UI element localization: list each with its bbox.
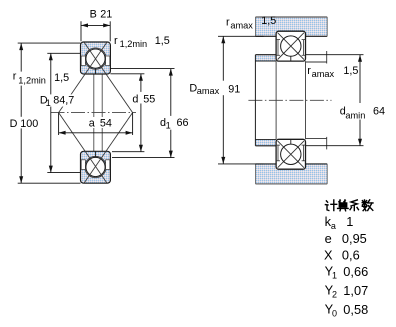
label r amax 1,5 (top) [226, 15, 276, 31]
svg-text:amax: amax [197, 86, 220, 96]
dimension d amin 64 [306, 55, 386, 146]
table rows [325, 214, 354, 231]
housing section top [256, 17, 328, 36]
shaft outline right of bearing, bottom [306, 137, 327, 150]
contact line lower-right [84, 113, 133, 183]
svg-text:1,5: 1,5 [343, 65, 358, 77]
svg-text:84,7: 84,7 [53, 94, 74, 106]
svg-text:1,5: 1,5 [261, 15, 276, 27]
svg-text:r: r [114, 35, 118, 47]
svg-text:1,5: 1,5 [54, 72, 69, 84]
contact line upper-left [59, 42, 107, 112]
svg-text:0,58: 0,58 [343, 302, 368, 317]
svg-text:1: 1 [166, 120, 171, 130]
svg-text:r: r [13, 71, 17, 83]
svg-text:1: 1 [46, 98, 51, 108]
svg-text:1: 1 [332, 270, 337, 280]
svg-text:0,6: 0,6 [342, 247, 360, 262]
shaft shoulder top [256, 55, 277, 61]
dimension d1 66 [110, 69, 190, 158]
contact line lower-left [59, 113, 107, 183]
svg-text:0,66: 0,66 [343, 264, 368, 279]
centerline (axis) left figure [51, 112, 137, 114]
svg-text:X: X [324, 247, 333, 262]
svg-text:54: 54 [100, 117, 112, 129]
contact line upper-right [84, 42, 133, 112]
dimension d 55 [110, 74, 157, 152]
svg-text:d: d [132, 93, 138, 105]
svg-text:1,2min: 1,2min [120, 39, 148, 49]
svg-text:1,5: 1,5 [155, 35, 170, 47]
svg-text:64: 64 [373, 105, 385, 117]
dimension a 54 [59, 113, 133, 135]
svg-text:amax: amax [312, 69, 335, 79]
bearing section bottom (right figure) [276, 139, 305, 169]
shaft outline right of bearing, top [306, 51, 327, 64]
svg-text:1,2min: 1,2min [18, 75, 46, 85]
svg-text:amax: amax [230, 20, 253, 30]
svg-text:100: 100 [20, 118, 38, 130]
svg-text:a: a [89, 117, 95, 129]
svg-text:55: 55 [143, 93, 155, 105]
dimension B 21 [81, 8, 112, 41]
svg-text:1,07: 1,07 [343, 283, 368, 298]
svg-text:21: 21 [100, 8, 112, 20]
svg-text:0,95: 0,95 [342, 231, 367, 246]
svg-text:a: a [331, 221, 336, 231]
label r amax 1,5 (middle) [307, 65, 358, 79]
svg-text:66: 66 [177, 117, 189, 129]
centerline (axis) right figure [248, 99, 331, 101]
svg-text:0: 0 [332, 309, 337, 319]
svg-text:D: D [10, 118, 18, 130]
dimension D amax 91 [188, 36, 264, 164]
label r 1,2min 1,5 (top right) [114, 35, 170, 49]
raceway projection verticals between rings [93, 74, 95, 151]
shaft face line [254, 55, 256, 146]
svg-text:2: 2 [332, 290, 337, 300]
svg-text:r: r [226, 17, 230, 29]
top ring section box [81, 42, 111, 74]
svg-text:amin: amin [345, 111, 365, 121]
bottom ring section box [81, 151, 111, 183]
svg-text:e: e [325, 231, 332, 246]
dimension D1 84,7 [38, 53, 80, 172]
svg-text:91: 91 [228, 83, 240, 95]
shaft shoulder bottom [256, 139, 277, 145]
header 计算系数 (hand drawn) [325, 200, 373, 211]
dimension D 100 (left outer) [8, 43, 81, 183]
svg-text:r: r [307, 65, 311, 77]
bearing side face projection lines [275, 61, 277, 139]
svg-text:B: B [90, 8, 97, 20]
housing section bottom [256, 164, 328, 184]
svg-text:1: 1 [346, 214, 353, 229]
label r 1,2min 1,5 (left) [12, 71, 70, 86]
bearing section top (right figure) [276, 31, 305, 61]
